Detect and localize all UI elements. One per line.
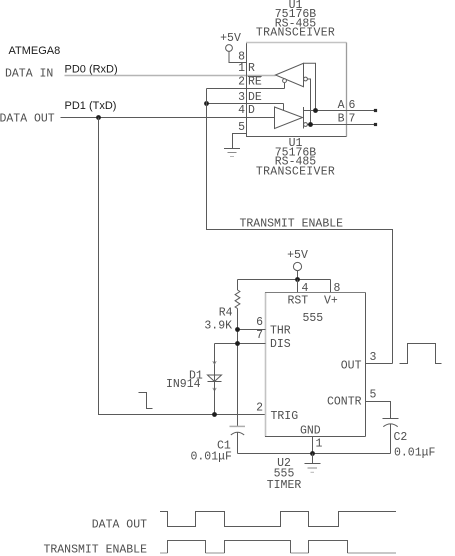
svg-text:6: 6 [349,99,356,112]
wire DE enable stub [283,104,285,111]
wire +5V rail [297,271,299,280]
svg-text:TRANSCEIVER: TRANSCEIVER [256,166,335,179]
driver buffer (U1) [275,107,304,129]
svg-text:1: 1 [238,62,245,75]
svg-text:A: A [338,99,345,112]
ground (555) [305,454,321,473]
wire V+ pin 8 drop [330,280,332,293]
svg-text:IN914: IN914 [166,378,201,391]
node B junction [308,122,313,127]
svg-text:DIS: DIS [270,338,291,351]
op-amp U1 transceiver box [246,43,347,137]
svg-text:0.01μF: 0.01μF [394,446,436,459]
pin 5 [233,121,247,149]
wire receiver input A [304,63,316,110]
svg-text:DATA OUT: DATA OUT [92,519,147,532]
svg-text:TRANSCEIVER: TRANSCEIVER [256,26,335,39]
svg-text:OUT: OUT [341,360,362,373]
capacitor C2 [383,419,399,454]
node DIS junction [235,341,240,346]
svg-text:1: 1 [316,438,323,451]
wire TRANSMIT ENABLE net [207,89,393,364]
waveform TRANSMIT ENABLE low segments [160,552,396,554]
node A junction [313,108,318,113]
pin 3 OUT [341,351,393,372]
svg-text:4: 4 [238,104,245,117]
svg-text:V+: V+ [324,295,338,308]
svg-text:+5V: +5V [287,249,308,262]
svg-text:5: 5 [370,389,377,402]
svg-text:TRANSMIT ENABLE: TRANSMIT ENABLE [43,544,147,556]
svg-text:TRANSMIT ENABLE: TRANSMIT ENABLE [240,217,344,230]
pin 4 D [238,104,255,117]
label U1 top block [256,0,335,39]
svg-text:THR: THR [270,324,291,337]
wire RST pin 4 drop [297,280,299,293]
wire DATA OUT to pin4 D [61,117,275,119]
wire DATA IN to pin1 R [65,75,276,77]
svg-text:RST: RST [288,295,309,308]
pin B 7 [338,113,378,127]
svg-text:B: B [338,113,345,126]
label U1 bottom block [256,137,335,179]
pin 1 GND [300,425,323,454]
pin 2 TRIG [256,401,298,423]
node DE/RE junction [204,101,209,106]
pin 7 DIS [215,329,291,351]
wire DATA OUT down to TRIG [99,118,266,415]
svg-text:C2: C2 [394,431,408,444]
svg-text:ATMEGA8: ATMEGA8 [9,45,61,57]
wire +5V to pin 8 [229,51,247,62]
svg-text:PD0 (RxD): PD0 (RxD) [65,64,118,76]
svg-text:555: 555 [303,312,324,325]
wire ground rail [238,453,391,455]
svg-text:D: D [248,104,255,117]
svg-text:DATA IN: DATA IN [5,67,53,80]
op-amp U2 555 box [265,293,366,437]
svg-text:TRIG: TRIG [271,410,299,423]
svg-text:2: 2 [238,76,245,89]
label U2 block [267,457,302,492]
node +5V rail junction [295,277,300,282]
capacitor C1 [230,426,246,453]
waveform TRANSMIT ENABLE high segments [168,541,348,554]
svg-text:R: R [248,62,255,75]
svg-text:PD1 (TxD): PD1 (TxD) [65,100,117,112]
pin 2 RE [207,76,285,89]
svg-text:CONTR: CONTR [327,396,362,409]
pin 5 CONTR [327,389,391,419]
svg-text:3: 3 [370,351,377,364]
svg-text:3.9K: 3.9K [204,319,232,332]
svg-text:7: 7 [256,329,263,342]
svg-text:3: 3 [238,91,245,104]
pin A 6 [338,99,378,112]
ground (transceiver pin 5) [224,149,240,157]
power +5V symbol (transceiver) [220,32,241,51]
svg-text:6: 6 [256,316,263,329]
pin 1 R [238,62,255,75]
node DATA OUT junction [96,115,101,120]
wire receiver input B with bubble [304,77,311,124]
waveform glyph falling edge [139,393,153,409]
power +5V symbol (555) [287,249,308,270]
svg-text:R4: R4 [219,307,233,320]
waveform DATA OUT [160,512,396,527]
wire driver output B with bubble [304,123,376,127]
svg-text:0.01μF: 0.01μF [191,450,233,463]
svg-text:+5V: +5V [220,32,241,45]
svg-text:2: 2 [256,401,263,414]
resistor R4 [235,280,240,427]
waveform glyph output pulse [400,344,442,364]
svg-text:7: 7 [349,113,356,126]
node THR junction [235,327,240,332]
svg-text:DE: DE [248,91,262,104]
svg-text:TIMER: TIMER [267,479,302,492]
svg-text:DATA OUT: DATA OUT [0,113,55,126]
svg-text:GND: GND [300,425,321,438]
node TRIG-diode junction [212,412,217,417]
svg-text:RE: RE [248,76,262,89]
receiver buffer (U1) [276,63,304,88]
svg-text:5: 5 [238,121,245,134]
diode D1 [208,344,222,415]
pin 3 DE [207,91,284,104]
pin 6 THR [238,316,291,338]
node ground junction [310,451,315,456]
wire driver output A [304,110,377,112]
